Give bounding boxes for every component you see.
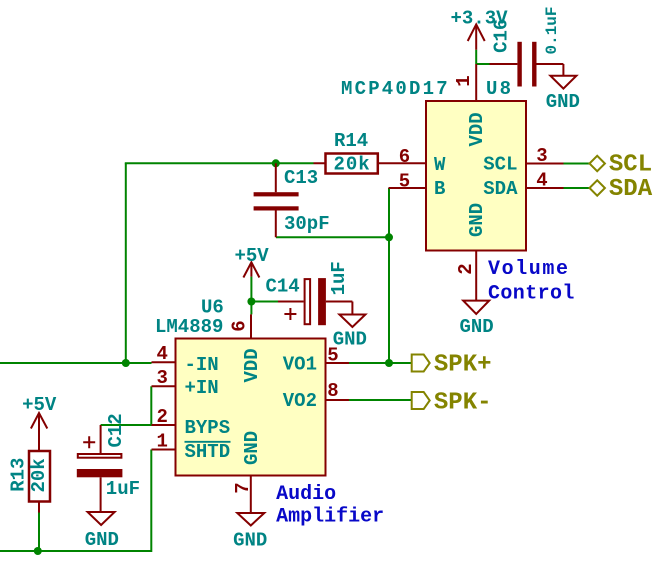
svg-text:SPK-: SPK- (434, 390, 492, 417)
svg-text:+5V: +5V (235, 245, 270, 267)
svg-text:SCL: SCL (483, 154, 517, 176)
svg-text:Audio: Audio (276, 483, 336, 506)
svg-text:VO2: VO2 (283, 390, 317, 412)
svg-text:8: 8 (327, 380, 338, 402)
svg-text:SHTD: SHTD (185, 441, 231, 463)
svg-text:5: 5 (399, 171, 410, 193)
svg-text:20k: 20k (28, 458, 50, 492)
svg-text:LM4889: LM4889 (155, 316, 223, 338)
svg-text:R13: R13 (8, 458, 30, 492)
svg-text:GND: GND (546, 91, 580, 113)
svg-text:1uF: 1uF (328, 261, 350, 295)
svg-text:GND: GND (241, 431, 263, 465)
svg-text:Control: Control (488, 283, 575, 306)
svg-text:+IN: +IN (185, 377, 219, 399)
svg-text:SPK+: SPK+ (434, 352, 492, 379)
svg-text:2: 2 (156, 406, 167, 428)
svg-text:C13: C13 (284, 167, 318, 189)
svg-text:SDA: SDA (609, 176, 653, 203)
svg-text:6: 6 (229, 320, 251, 331)
svg-text:W: W (434, 154, 446, 176)
svg-text:B: B (434, 178, 445, 200)
svg-text:-IN: -IN (185, 354, 219, 376)
svg-text:0.1uF: 0.1uF (543, 6, 561, 54)
svg-text:MCP40D17: MCP40D17 (341, 78, 450, 100)
svg-text:C12: C12 (105, 413, 127, 447)
svg-text:3: 3 (156, 367, 167, 389)
svg-text:2: 2 (455, 263, 477, 274)
svg-text:VDD: VDD (466, 112, 488, 146)
svg-text:Volume: Volume (488, 258, 570, 281)
svg-text:VDD: VDD (241, 348, 263, 382)
svg-text:R14: R14 (334, 130, 368, 152)
svg-text:GND: GND (460, 316, 494, 338)
svg-text:4: 4 (536, 170, 547, 192)
svg-text:C16: C16 (491, 19, 513, 53)
svg-text:Amplifier: Amplifier (276, 506, 384, 529)
svg-text:+5V: +5V (22, 394, 57, 416)
svg-text:1uF: 1uF (106, 478, 140, 500)
svg-text:3: 3 (536, 145, 547, 167)
svg-text:4: 4 (156, 343, 167, 365)
svg-text:6: 6 (399, 146, 410, 168)
svg-text:GND: GND (233, 530, 267, 552)
svg-text:SDA: SDA (483, 178, 518, 200)
svg-text:5: 5 (327, 345, 338, 367)
svg-text:1: 1 (156, 431, 167, 453)
svg-text:20k: 20k (334, 154, 371, 176)
svg-text:1: 1 (453, 75, 475, 86)
svg-text:GND: GND (466, 203, 488, 237)
svg-text:BYPS: BYPS (185, 417, 231, 439)
svg-text:30pF: 30pF (284, 213, 330, 235)
svg-text:VO1: VO1 (283, 354, 317, 376)
svg-text:C14: C14 (266, 276, 300, 298)
svg-text:GND: GND (85, 529, 119, 551)
svg-text:SCL: SCL (609, 152, 652, 179)
svg-text:7: 7 (232, 482, 254, 493)
svg-text:U8: U8 (486, 78, 513, 100)
